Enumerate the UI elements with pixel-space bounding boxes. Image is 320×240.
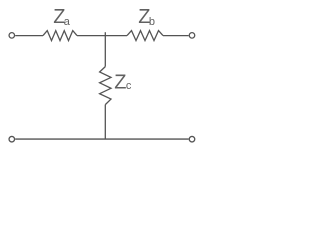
svg-text:b: b: [149, 16, 155, 28]
svg-text:a: a: [64, 16, 71, 28]
svg-text:c: c: [126, 80, 132, 92]
svg-text:Z: Z: [114, 72, 126, 94]
